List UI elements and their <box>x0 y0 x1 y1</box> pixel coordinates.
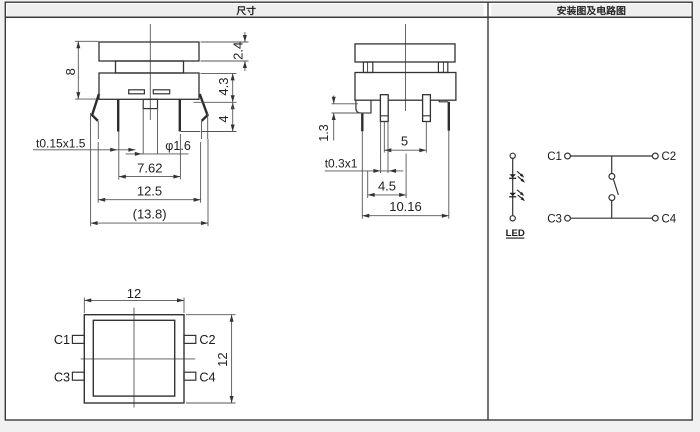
side view right step <box>439 100 448 102</box>
svg-text:4.3: 4.3 <box>216 78 231 96</box>
bottom view outer square <box>84 315 184 403</box>
header bottom border <box>5 16 692 18</box>
side view bottom-left boss <box>356 100 371 113</box>
side view right leg <box>448 102 450 131</box>
node C2 terminal <box>652 153 658 159</box>
dimension 4.3 (body height) <box>194 73 237 109</box>
svg-text:C1: C1 <box>54 333 70 347</box>
front view centerline <box>149 24 151 120</box>
svg-text:C4: C4 <box>199 371 215 385</box>
bottom view terminal C3 tab <box>72 372 84 380</box>
svg-text:2.4: 2.4 <box>231 42 246 60</box>
header cell 安装图及电路图 background <box>491 4 691 16</box>
dimension 7.62 (pin spacing) <box>119 132 181 180</box>
bottom view terminal C2 tab <box>184 335 196 343</box>
node C1 terminal <box>565 153 571 159</box>
switch lower contact <box>609 195 615 201</box>
bottom view vertical centerline <box>133 308 135 408</box>
svg-text:12: 12 <box>215 352 230 366</box>
dimension 1.3 (boss height) <box>317 96 371 142</box>
LED cathode terminal circle <box>510 216 515 221</box>
header title 安装图及电路图 <box>557 6 625 15</box>
svg-text:8: 8 <box>63 68 78 75</box>
side view button cap <box>355 44 455 62</box>
dimension (13.8) overall width <box>91 139 208 226</box>
svg-text:C4: C4 <box>661 213 676 225</box>
svg-text:t0.3x1: t0.3x1 <box>325 156 358 170</box>
front view left contact pin <box>117 99 119 131</box>
header cell 尺寸 background <box>7 4 484 16</box>
svg-text:φ1.6: φ1.6 <box>165 139 191 153</box>
LED diode D2 <box>509 190 525 201</box>
switch upper contact <box>609 174 615 180</box>
callout t0.3x1 (LED pin section) <box>325 122 404 174</box>
node C3 terminal <box>565 215 571 221</box>
callout φ1.6 (LED pin dia) <box>126 139 191 156</box>
dimension 8 (front height) <box>63 41 99 99</box>
front view cap stem <box>116 61 184 73</box>
bottom view terminal C1 tab <box>72 335 84 343</box>
dimension 5 (LED pin spacing) <box>384 122 426 153</box>
bottom view terminal C4 tab <box>184 372 196 380</box>
svg-text:5: 5 <box>401 133 408 148</box>
svg-text:12.5: 12.5 <box>137 183 162 198</box>
svg-text:C3: C3 <box>54 371 70 385</box>
side view switch body <box>355 73 456 101</box>
dimension 10.16 (lead span) <box>362 131 449 219</box>
front view right mounting clip <box>200 94 208 139</box>
bottom view horizontal centerline <box>81 358 196 360</box>
svg-text:LED: LED <box>506 228 525 239</box>
dimension 12 right (height) <box>186 315 236 403</box>
wire C3-C4 <box>570 217 652 219</box>
dimension 4.5 <box>368 154 406 199</box>
svg-text:12: 12 <box>127 286 141 301</box>
side view cap post right <box>438 62 447 73</box>
node C4 terminal <box>652 215 658 221</box>
front view body slot right <box>153 90 169 94</box>
svg-text:4.5: 4.5 <box>378 178 396 193</box>
column divider <box>487 2 489 420</box>
switch stub wire <box>611 156 613 174</box>
side view LED pin right <box>423 95 431 122</box>
side view centerline <box>405 24 407 111</box>
svg-text:4: 4 <box>216 115 231 122</box>
LED wire <box>512 158 514 215</box>
front view LED lens tube <box>143 99 157 153</box>
svg-text:C2: C2 <box>199 333 215 347</box>
front view pin bottom ledge <box>181 131 200 133</box>
svg-text:C1: C1 <box>547 151 562 163</box>
switch blade <box>614 180 619 196</box>
callout t0.15x1.5 (pin section) <box>33 137 135 152</box>
dimension 12 top (width) <box>84 286 184 313</box>
svg-text:C2: C2 <box>661 151 676 163</box>
side view left leg <box>361 113 363 132</box>
front view body slot left <box>129 90 145 94</box>
svg-text:(13.8): (13.8) <box>133 206 167 221</box>
LED anode terminal circle <box>510 153 515 158</box>
front view button cap <box>99 42 199 61</box>
svg-text:1.3: 1.3 <box>317 124 331 141</box>
dimension 4 (pin length) <box>201 95 237 131</box>
LED diode D1 <box>509 171 525 182</box>
wire C1-C2 <box>570 155 652 157</box>
svg-text:10.16: 10.16 <box>389 199 422 214</box>
dimension 12.5 (body width) <box>98 142 200 203</box>
svg-text:C3: C3 <box>547 213 562 225</box>
front view switch body <box>99 73 199 99</box>
bottom view inner square <box>93 320 174 396</box>
dimension 2.4 (cap height) <box>201 32 249 71</box>
LED label <box>506 228 525 239</box>
front view left mounting clip <box>91 94 99 139</box>
svg-text:7.62: 7.62 <box>137 160 162 175</box>
front view right contact pin <box>179 99 181 131</box>
side view LED pin left <box>380 95 388 122</box>
switch lower wire <box>611 201 613 219</box>
svg-text:t0.15x1.5: t0.15x1.5 <box>36 137 86 151</box>
header title 尺寸 <box>237 6 256 15</box>
side view cap post left <box>363 62 372 73</box>
